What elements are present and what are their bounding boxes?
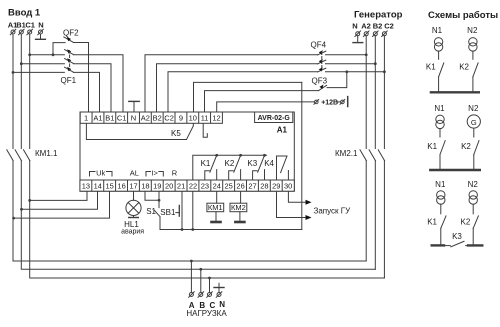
- svg-text:K5: K5: [171, 129, 181, 138]
- svg-text:QF4: QF4: [311, 41, 327, 50]
- node A1 feed junction: [12, 71, 15, 74]
- svg-text:N: N: [352, 22, 357, 31]
- label Схемы работы: [428, 10, 498, 21]
- svg-text:C2: C2: [384, 22, 394, 31]
- wire 22 riser: [191, 191, 194, 231]
- svg-text:Запуск ГУ: Запуск ГУ: [314, 207, 352, 216]
- wire phase A1 lower: [13, 161, 366, 261]
- breaker QF1 pole2: [65, 58, 74, 63]
- svg-text:10: 10: [189, 114, 197, 123]
- wire N generator stub: [353, 36, 363, 43]
- contactor KM1.1 pole A: [7, 150, 13, 161]
- contactor KM2.1 pole A: [360, 150, 366, 161]
- internal common bus 22: [193, 155, 267, 180]
- breaker QF4 pole3: [318, 67, 326, 72]
- svg-text:27: 27: [248, 182, 256, 191]
- wire N input stub: [36, 34, 46, 39]
- wire C1 to QF1 pole1: [30, 54, 65, 56]
- scheme3 lamp N2: [468, 180, 479, 204]
- svg-text:НАГРУЗКА: НАГРУЗКА: [186, 309, 227, 318]
- wire S1 to bus: [160, 217, 302, 230]
- breaker QF4 linkage: [311, 41, 327, 71]
- label НАГРУЗКА: [186, 309, 227, 318]
- label AL: [130, 169, 139, 178]
- AVR-02-G label box: [255, 112, 293, 123]
- svg-text:B2: B2: [153, 114, 162, 123]
- svg-text:24: 24: [213, 182, 221, 191]
- scheme1 lamp N1: [432, 26, 443, 51]
- svg-text:N1: N1: [434, 104, 445, 113]
- contactor KM1.1 pole C: [24, 149, 58, 161]
- node B2 feed junction: [374, 62, 377, 65]
- svg-text:26: 26: [236, 182, 244, 191]
- wire phase A1 upper: [12, 34, 14, 149]
- wire B1 to QF1 pole2: [21, 63, 64, 65]
- svg-text:N2: N2: [468, 180, 479, 189]
- svg-text:N1: N1: [432, 26, 443, 35]
- wire 30 to start arrow: [288, 191, 311, 205]
- svg-text:A1: A1: [277, 126, 288, 135]
- breaker QF1 linkage: [61, 51, 77, 86]
- wire 21 riser: [181, 191, 184, 231]
- svg-text:15: 15: [106, 182, 114, 191]
- svg-text:QF1: QF1: [61, 76, 77, 85]
- wire phase C1 upper: [29, 34, 31, 149]
- svg-text:22: 22: [189, 182, 197, 191]
- svg-text:9: 9: [179, 114, 183, 123]
- svg-text:Uk: Uk: [96, 169, 105, 178]
- svg-text:G: G: [471, 118, 477, 127]
- wire B2 to QF4 pole2: [326, 63, 376, 65]
- svg-text:C2: C2: [164, 114, 174, 123]
- label Генератор: [354, 10, 403, 21]
- svg-text:25: 25: [225, 182, 233, 191]
- contactor KM2.1 pole C: [335, 149, 385, 161]
- scheme2 lamp N1: [434, 104, 445, 129]
- wire phase B1 lower: [21, 161, 375, 270]
- contactor KM2.1 pole B: [369, 150, 375, 161]
- svg-text:КМ2: КМ2: [231, 203, 246, 212]
- relay contact K2: [225, 154, 242, 180]
- node QF2 tap junction: [52, 53, 55, 56]
- wire 18 drop: [145, 191, 159, 200]
- svg-text:N: N: [219, 300, 225, 309]
- node load C tap: [208, 277, 211, 293]
- label +12V: [321, 99, 340, 106]
- AVR terminal N tee: [129, 101, 139, 112]
- svg-text:N: N: [38, 21, 43, 30]
- svg-text:N2: N2: [467, 26, 478, 35]
- AVR bottom terminal boxes: [80, 180, 294, 191]
- switch QF3: [312, 77, 328, 91]
- wire 15 to A1: [12, 191, 109, 220]
- svg-text:K2: K2: [459, 63, 469, 72]
- terminal N input: [38, 21, 44, 35]
- svg-text:КМ1: КМ1: [208, 203, 223, 212]
- svg-text:K2: K2: [461, 218, 471, 227]
- label I> bracket: [146, 169, 163, 178]
- wire phase C2 upper: [383, 36, 385, 149]
- wire QF2 to terminal 1: [74, 43, 89, 113]
- svg-text:14: 14: [94, 182, 102, 191]
- svg-text:K1: K1: [427, 218, 437, 227]
- svg-text:R: R: [172, 169, 178, 178]
- svg-text:29: 29: [272, 182, 280, 191]
- breaker QF4 pole1: [318, 50, 326, 55]
- wire phase C1 lower: [30, 161, 385, 278]
- breaker QF2: [63, 29, 79, 43]
- terminal load B: [198, 292, 205, 310]
- wire 19 drop: [158, 191, 161, 208]
- label A1 unit: [277, 126, 288, 135]
- wire phase B2 lower: [374, 161, 376, 270]
- svg-text:30: 30: [284, 182, 292, 191]
- node B1 feed junction: [20, 62, 23, 65]
- wire QF2 feed: [53, 43, 65, 55]
- svg-text:K1: K1: [427, 142, 437, 151]
- terminal N generator: [352, 22, 360, 37]
- terminal load N: [216, 292, 225, 309]
- svg-text:Ввод 1: Ввод 1: [8, 8, 41, 19]
- svg-text:КМ2.1: КМ2.1: [335, 149, 358, 158]
- wire QF3 to terminal 11: [205, 91, 319, 112]
- wire A1 to QF1 pole3: [13, 71, 64, 73]
- wire C2 to QF4 pole3: [326, 71, 385, 73]
- terminal load C: [207, 292, 216, 310]
- scheme1 lamp N2: [467, 26, 478, 51]
- scheme1 contact K1: [426, 51, 444, 92]
- svg-text:SB1: SB1: [160, 208, 176, 217]
- svg-text:Схемы работы: Схемы работы: [428, 10, 498, 21]
- svg-text:K1: K1: [201, 159, 211, 168]
- svg-text:Генератор: Генератор: [354, 10, 403, 21]
- scheme2 contact K2: [461, 128, 479, 169]
- lamp HL1: [121, 191, 144, 236]
- terminal C2 generator: [382, 22, 394, 37]
- wire 13 to C1: [28, 191, 87, 202]
- wire QF4 pole2 to AVR B2: [157, 64, 318, 112]
- wire QF4 pole3 to AVR C2: [168, 72, 318, 112]
- terminal B2 generator: [373, 22, 383, 37]
- svg-text:K4: K4: [264, 159, 274, 168]
- svg-text:K3: K3: [452, 232, 462, 241]
- relay contact K3: [247, 154, 265, 180]
- load N stub: [214, 283, 224, 292]
- wire A2 to QF4 pole1: [326, 54, 367, 56]
- svg-text:N2: N2: [468, 104, 479, 113]
- node C2 feed junction: [383, 70, 386, 73]
- svg-text:17: 17: [129, 182, 137, 191]
- svg-text:B1: B1: [105, 114, 114, 123]
- breaker QF1 pole1: [65, 49, 74, 54]
- terminal A2 generator: [361, 22, 371, 37]
- AVR top terminal boxes: [80, 112, 222, 123]
- svg-text:N1: N1: [435, 180, 446, 189]
- svg-text:QF2: QF2: [63, 29, 79, 38]
- wire QF3 feed: [327, 72, 347, 88]
- svg-text:23: 23: [201, 182, 209, 191]
- label R: [172, 169, 178, 178]
- svg-text:AVR-02-G: AVR-02-G: [258, 115, 291, 122]
- terminal +12V minus: [340, 100, 345, 105]
- terminal load A: [189, 292, 195, 310]
- terminal B1 input: [16, 21, 26, 35]
- wire 14 to B1: [20, 191, 97, 211]
- wire phase B2 upper: [374, 36, 376, 149]
- wire phase A2 lower: [365, 161, 367, 261]
- contactor KM1.1 pole B: [15, 150, 21, 161]
- switch S1: [146, 207, 160, 217]
- scheme3 lamp N1: [435, 180, 446, 204]
- pushbutton SB1: [160, 205, 179, 217]
- svg-text:12: 12: [212, 114, 220, 123]
- relay contact K1: [201, 154, 218, 180]
- svg-text:20: 20: [165, 182, 173, 191]
- scheme2 generator N2: [467, 104, 480, 128]
- svg-text:16: 16: [117, 182, 125, 191]
- svg-text:I>: I>: [151, 169, 158, 178]
- battery minus bar: [347, 97, 349, 107]
- wire terminal 10 riser: [194, 82, 302, 112]
- svg-text:K1: K1: [426, 63, 436, 72]
- scheme3 contact K1: [427, 204, 446, 245]
- svg-text:13: 13: [82, 182, 90, 191]
- label Ввод 1: [8, 8, 41, 19]
- node load B tap: [199, 268, 202, 293]
- wire terminal 12 riser to +12V: [217, 102, 314, 112]
- wire QF1 pole3 to AVR A1: [73, 72, 99, 112]
- svg-text:КМ1.1: КМ1.1: [35, 149, 58, 158]
- node QF3 tap junction: [345, 70, 348, 73]
- node load A tap: [190, 260, 193, 293]
- svg-text:A2: A2: [141, 114, 150, 123]
- scheme2 bus bar: [430, 169, 480, 171]
- coil KM1: [207, 191, 224, 222]
- svg-text:N: N: [131, 114, 136, 123]
- svg-text:1: 1: [84, 114, 88, 123]
- wire phase A2 upper: [365, 36, 367, 149]
- label Uk bracket: [90, 169, 113, 178]
- svg-text:B2: B2: [373, 22, 383, 31]
- terminal C1 input: [25, 21, 35, 35]
- svg-text:C1: C1: [117, 114, 127, 123]
- coil KM2: [230, 191, 247, 222]
- terminal +12V plus: [314, 100, 319, 105]
- node A2 feed junction: [365, 53, 368, 56]
- wire phase C2 lower: [383, 161, 385, 278]
- wire phase B1 upper: [20, 34, 22, 149]
- scheme3 left bus bar: [432, 244, 444, 246]
- svg-text:K2: K2: [461, 142, 471, 151]
- svg-text:B1: B1: [16, 21, 26, 30]
- terminal A1 input: [8, 21, 18, 35]
- breaker QF4 pole2: [318, 59, 326, 64]
- svg-text:A1: A1: [93, 114, 102, 123]
- breaker QF1 pole3: [65, 67, 74, 72]
- svg-text:+12В: +12В: [321, 99, 338, 106]
- svg-text:K3: K3: [247, 159, 257, 168]
- svg-text:28: 28: [260, 182, 268, 191]
- wire QF1 pole1 to AVR C1: [73, 55, 123, 112]
- svg-text:19: 19: [153, 182, 161, 191]
- AVR block outline: [80, 112, 294, 191]
- scheme3 contact K2: [461, 204, 479, 245]
- svg-text:C1: C1: [25, 21, 35, 30]
- svg-text:11: 11: [201, 114, 209, 123]
- svg-text:AL: AL: [130, 169, 139, 178]
- wire QF1 pole2 to AVR B1: [73, 64, 111, 112]
- scheme1 bus bar: [431, 91, 479, 93]
- label Запуск ГУ: [314, 207, 352, 216]
- relay contact K5: [86, 123, 207, 140]
- wire common return vertical: [301, 82, 303, 229]
- svg-text:18: 18: [141, 182, 149, 191]
- svg-text:A2: A2: [361, 22, 371, 31]
- svg-text:QF3: QF3: [312, 77, 328, 86]
- scheme1 contact K2: [459, 51, 478, 92]
- svg-text:K2: K2: [225, 159, 235, 168]
- svg-text:21: 21: [177, 182, 185, 191]
- wire 29 to start arrow: [277, 191, 312, 220]
- scheme3 right bus bar: [468, 244, 482, 246]
- scheme3 contact K3: [444, 232, 469, 247]
- svg-text:авария: авария: [121, 229, 144, 236]
- scheme2 contact K1: [427, 129, 445, 170]
- node C1 feed junction: [28, 53, 31, 56]
- svg-text:S1: S1: [146, 207, 156, 216]
- relay contact K4: [264, 156, 288, 180]
- wire QF4 pole1 to AVR A2: [145, 55, 318, 112]
